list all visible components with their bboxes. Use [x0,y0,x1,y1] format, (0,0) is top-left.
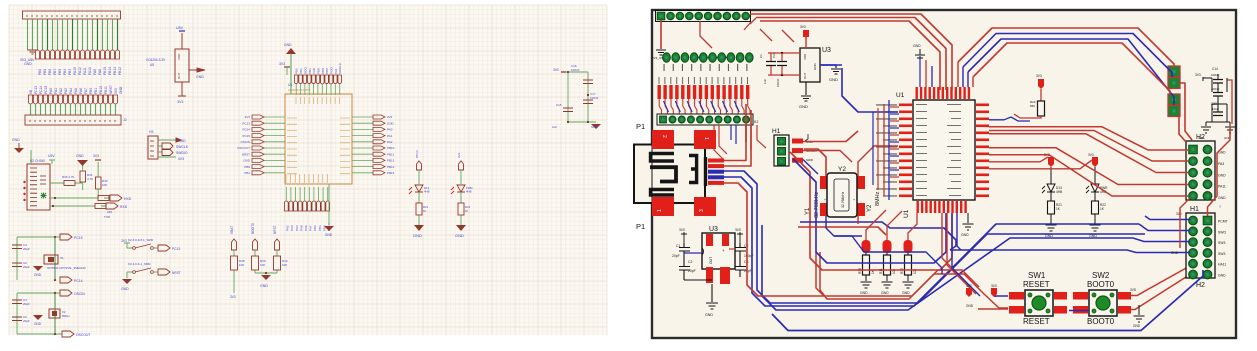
capacitor C4 [12,243,30,251]
PCB board outline [652,10,1236,338]
svg-text:GND: GND [121,287,129,291]
terminal OSCOUT [62,331,91,337]
wire blue cross at resistors [834,236,942,274]
capacitor C6 [12,315,30,323]
svg-text:PC13: PC13 [415,150,419,158]
resistor R34 [50,204,112,215]
capacitor C2 left at U3 bottom [679,260,712,280]
svg-text:TXD: TXD [104,215,111,219]
svg-text:SWDIO: SWDIO [176,151,188,155]
svg-text:PA11: PA11 [83,67,87,75]
wire blue trapezoid to via V2 [963,34,1172,78]
wire U1 bottom fan [866,210,980,296]
svg-text:220: 220 [107,210,112,214]
net labels MCU left [237,115,251,175]
capacitor C3 [12,298,30,306]
svg-text:GND: GND [284,43,292,47]
terminal RXD [104,203,128,219]
svg-text:PB8: PB8 [38,69,42,75]
svg-text:PC14: PC14 [74,279,83,283]
crystal X1 [44,255,86,270]
MCU U4 APM32F103 [285,83,352,184]
svg-text:GND: GND [119,86,123,94]
MCU U4 top pins [294,75,342,95]
svg-text:PA2: PA2 [286,225,290,231]
svg-text:100nF: 100nF [571,68,580,72]
connector J1 pin pads [35,50,120,59]
net labels MCU right [387,115,395,175]
wire blue bus to H1 right [950,216,1190,253]
wire K2 header to top bus [700,21,794,48]
svg-text:PB13: PB13 [387,159,395,163]
connector K2 header [657,114,758,125]
svg-text:H1: H1 [1190,206,1199,213]
svg-text:PA0: PA0 [387,128,393,132]
capacitor C2 right at U3 bottom [729,243,754,262]
svg-text:PB14: PB14 [387,165,395,169]
svg-text:3V3: 3V3 [93,154,99,158]
svg-text:PB10: PB10 [99,86,103,94]
svg-text:GND: GND [961,233,969,237]
via V1 [1168,66,1180,77]
svg-text:PA7: PA7 [309,225,313,231]
svg-text:C15: C15 [556,103,562,107]
svg-text:100nF: 100nF [776,78,780,87]
svg-text:PB11: PB11 [387,152,394,156]
switch SW1 RESET [1009,271,1067,326]
regulator U3 top [799,25,831,109]
svg-text:GND: GND [34,273,42,277]
resistor R30 [93,154,108,198]
svg-text:PA2: PA2 [387,140,393,144]
svg-text:1K: 1K [423,209,427,213]
resistor R11 footprint [879,240,896,295]
svg-text:K3-3.0-6-1_SMD: K3-3.0-6-1_SMD [128,262,151,266]
SMD pad row K2 [658,77,750,99]
svg-text:BOOT0: BOOT0 [1087,317,1115,326]
wire J2 pin nets [31,104,116,115]
svg-text:R36 4.7K: R36 4.7K [62,175,75,179]
svg-text:HA11: HA11 [1218,263,1226,267]
wire blue from U3 to U1 [820,65,898,112]
svg-text:PA6: PA6 [304,225,308,231]
svg-text:PB1: PB1 [244,171,250,175]
svg-text:3V3: 3V3 [121,239,127,243]
svg-text:1K: 1K [465,209,469,213]
svg-text:4.7K: 4.7K [87,177,93,181]
wire red to LED chains [989,157,1092,169]
svg-text:1uF: 1uF [552,125,557,129]
wire J1 pin nets [28,19,118,50]
svg-text:PB0: PB0 [295,68,299,74]
svg-text:GND: GND [591,125,599,129]
IC U1 footprint [896,92,975,218]
svg-text:PC13: PC13 [172,247,180,251]
svg-text:NRST: NRST [273,225,277,234]
resistor R33 [50,196,110,201]
connector J2 header box [25,115,127,125]
svg-text:PB2: PB2 [325,68,329,74]
svg-text:VDD: VDD [803,53,807,60]
svg-text:PA4: PA4 [69,88,73,94]
wire OSCIN net [17,292,62,335]
crystal Y1 footprint [820,166,865,217]
ground at U5 [189,68,205,79]
svg-text:SWO: SWO [1218,230,1226,234]
svg-text:SW3: SW3 [1218,241,1225,245]
svg-text:OUT: OUT [709,257,713,264]
svg-text:GND: GND [24,62,32,66]
svg-text:PB3: PB3 [68,69,72,75]
wire red under crystal [798,227,886,235]
svg-text:BOOT0: BOOT0 [1087,280,1115,289]
svg-text:C22: C22 [772,52,776,58]
svg-text:R32: R32 [900,268,904,274]
svg-text:NRST: NRST [109,85,113,94]
wire red inner to via V3 [973,43,1170,94]
node 3V3 at SW1 [995,296,1008,297]
capacitor network C16 C17 C15 [552,64,599,129]
resistor chain BOOT0 [251,223,266,273]
svg-text:RESET: RESET [1023,317,1050,326]
svg-text:PCMT: PCMT [1218,220,1228,224]
wire fanout K2 to header [659,99,750,114]
terminal HXD [110,195,132,201]
svg-text:PB10: PB10 [387,146,395,150]
pads P1 signal pins [708,159,724,185]
svg-text:GND: GND [12,138,20,142]
wire red left of U1 [873,100,899,200]
svg-text:H2: H2 [1196,282,1205,289]
svg-text:GND: GND [413,233,422,238]
svg-text:H3: H3 [149,130,153,134]
ground at SW2 right [1133,305,1145,328]
MCU U4 bottom pins [284,187,330,211]
svg-text:100nF: 100nF [590,96,599,100]
svg-text:PB9: PB9 [43,69,47,75]
svg-text:GND: GND [913,44,921,48]
svg-text:PB15: PB15 [387,171,395,175]
wire red loop around crystal [790,152,952,270]
wire blue from U1 right [989,117,1011,120]
svg-text:X1: X1 [60,256,64,260]
wire red bathtub pair [816,252,1008,308]
ground above MCU U4 [284,43,296,94]
svg-text:P1: P1 [636,122,645,131]
svg-text:U5: U5 [150,63,154,67]
pad P1 pin4 [694,197,716,216]
svg-text:3V3: 3V3 [114,88,118,94]
svg-text:PC14: PC14 [39,86,43,94]
svg-text:20pF: 20pF [23,265,30,269]
svg-text:OUT: OUT [177,73,181,80]
svg-text:+: + [722,248,725,253]
connector J2 pads second row [663,53,753,62]
MCU U4 left pins [252,115,285,175]
svg-text:RXD: RXD [120,205,128,209]
resistor R38 footprint [858,240,875,295]
svg-text:PA4: PA4 [295,225,299,231]
net labels MCU bottom [286,223,331,231]
svg-text:PB7: PB7 [53,69,57,75]
svg-text:32768HZ-CRYSTAL_3MEGND: 32768HZ-CRYSTAL_3MEGND [47,266,86,270]
svg-text:PA6: PA6 [79,88,83,94]
svg-text:3V3: 3V3 [230,295,236,299]
svg-text:OUT: OUT [803,73,807,80]
svg-text:1: 1 [657,209,663,212]
capacitor C1 at U3 top [759,52,800,84]
wire red vertical K2 to usb [746,125,751,150]
svg-text:K2-3.0-6-5.1_SMD: K2-3.0-6-5.1_SMD [128,238,154,242]
wire H1 to crystal area [803,131,858,174]
regulator U5 XC6204 [146,26,189,104]
svg-text:10K: 10K [239,263,244,267]
svg-text:VDD: VDD [177,53,181,60]
connector J1 pads top row [656,11,751,22]
svg-text:20pF: 20pF [688,269,696,273]
silkscreen labels H1 [1176,212,1228,278]
pads U1 left [899,104,912,198]
svg-text:BOOT0: BOOT0 [251,223,255,234]
LED PWR chain pcb [1086,153,1108,238]
svg-text:PA12: PA12 [78,67,82,75]
connector P1 USB body [634,122,706,231]
svg-text:PB13: PB13 [113,67,117,75]
ground at U1 bottom right [961,213,974,237]
pad P1 pin3 [652,197,674,216]
regulator U3 bottom footprint [702,226,735,284]
silkscreen labels J2 row [664,64,748,71]
silkscreen label Y1 [805,191,820,218]
capacitor C14 C20 block [1195,67,1235,140]
ground at X2 [33,315,43,326]
svg-text:?: ? [1219,205,1221,209]
svg-text:U1: U1 [903,209,910,218]
ground at U1 top [913,44,925,87]
LED PWR chain [451,152,473,238]
connector J1 header box [23,11,121,19]
svg-text:PC15: PC15 [242,134,250,138]
svg-text:20pF: 20pF [744,269,752,273]
svg-text:PB11: PB11 [104,86,108,94]
svg-text:2: 2 [661,135,667,138]
svg-text:PB0: PB0 [313,225,317,231]
LED D13 chain [409,150,430,238]
svg-text:3V3: 3V3 [1088,153,1094,157]
terminal PC15 [60,234,83,240]
wire SW1 to SW2 link [1069,310,1089,312]
node 3V3 above MCU U4 [279,62,290,75]
svg-text:PA0: PA0 [49,88,53,94]
svg-text:PB14: PB14 [108,67,112,75]
svg-text:3V3: 3V3 [1036,74,1042,78]
svg-text:GND: GND [196,75,204,79]
svg-text:PA7: PA7 [84,88,88,94]
svg-text:3MY: 3MY [1198,136,1204,140]
svg-text:GND: GND [902,291,910,295]
svg-text:PB5: PB5 [58,69,62,75]
svg-text:10K: 10K [260,263,265,267]
pad P1 pin2 [652,130,674,149]
svg-text:PC15: PC15 [74,236,83,240]
pads U1 right [976,104,989,198]
svg-text:SWD: SWD [806,158,814,162]
node 3V3 pads below U1 [966,284,997,297]
LED D13 chain pcb [1042,153,1062,238]
svg-text:PA3: PA3 [64,88,68,94]
svg-text:PB9: PB9 [244,165,250,169]
svg-text:3VD: 3VD [1130,288,1137,292]
svg-text:PA8: PA8 [98,69,102,75]
svg-text:J2: J2 [123,118,127,122]
svg-text:20pF: 20pF [23,247,30,251]
svg-text:P1: P1 [636,222,645,231]
switch SW2 BOOT0 [1073,271,1131,326]
svg-text:R38: R38 [858,268,862,274]
svg-text:GND: GND [799,104,808,109]
via V2 [1168,78,1180,89]
wire GND stub from J1 pad1 [652,20,666,60]
svg-text:+: + [824,198,826,202]
svg-text:SW2: SW2 [1092,271,1110,280]
capacitor C3 at U3 bottom [735,260,752,277]
svg-text:GND: GND [813,63,817,71]
resistor R29 [1011,74,1045,121]
svg-text:C1: C1 [759,54,763,58]
switch K3 [127,262,181,278]
svg-text:3V3: 3V3 [800,25,806,29]
svg-text:PB0: PB0 [89,88,93,94]
svg-text:3V3: 3V3 [245,115,251,119]
svg-text:SW3: SW3 [1218,252,1225,256]
net labels J1 [38,67,122,75]
svg-text:OSCOUT: OSCOUT [76,333,91,337]
wire trapezoid stubs to U1 [926,60,973,87]
wire red fan to H2 [989,127,1188,196]
svg-text:1: 1 [703,137,709,140]
svg-text:SWCLK: SWCLK [176,145,189,149]
svg-text:3: 3 [699,209,705,212]
svg-text:560: 560 [1030,104,1035,108]
svg-text:PB6: PB6 [48,69,52,75]
svg-text:OSCIN: OSCIN [240,140,250,144]
net labels J2 [29,85,123,94]
ground at R31 [76,154,88,166]
svg-text:3V3: 3V3 [279,62,285,66]
svg-text:PA3: PA3 [1218,162,1224,166]
svg-text:10K: 10K [282,263,287,267]
svg-text:PA1: PA1 [54,88,58,94]
svg-text:PC13: PC13 [242,121,250,125]
svg-text:PB15: PB15 [103,67,107,75]
svg-text:U1: U1 [896,92,905,99]
svg-text:PA3: PA3 [290,225,294,231]
svg-text:10K: 10K [102,183,107,187]
connector H3 [148,130,189,161]
via V4 [1168,106,1180,117]
wire via V4 to right edge [1179,116,1186,142]
svg-text:GND: GND [260,284,268,288]
ground at pullup chains [255,272,277,288]
svg-text:4HB: 4HB [1056,190,1062,194]
wire K2 to USB region [714,125,766,160]
ground at U3 bottom [705,284,718,317]
svg-text:3V3: 3V3 [966,284,972,288]
svg-text:H1: H1 [772,128,781,135]
capacitor C2 [12,261,30,269]
svg-text:Y2: Y2 [867,204,873,212]
terminal OSCIN [60,290,85,296]
IC U2 USB interface [23,159,50,210]
svg-text:4HB: 4HB [424,190,430,194]
wire blue loop around crystal [793,159,946,263]
pad P1 pin1 [694,130,716,149]
svg-text:GND: GND [455,233,464,238]
svg-text:20pF: 20pF [672,254,680,258]
svg-text:3V3: 3V3 [457,152,461,158]
svg-text:PA9: PA9 [93,69,97,75]
wire red right bottom loop [1171,198,1190,255]
wire via V2 to right edge [1180,83,1192,140]
svg-text:K2: K2 [754,120,758,124]
svg-text:SW1: SW1 [1028,271,1046,280]
pads U1 top [916,87,971,99]
wire red into H1 PCMT [1208,126,1231,216]
wire crystal pads up [804,146,898,236]
svg-text:PA5: PA5 [74,88,78,94]
svg-text:RESET: RESET [1023,280,1050,289]
svg-text:GND: GND [1133,324,1141,328]
svg-text:PA5: PA5 [299,225,303,231]
ground at C16 [591,124,601,129]
wire blue bottom long [772,270,1203,331]
svg-text:C14: C14 [1212,67,1218,71]
svg-text:3V3: 3V3 [387,115,393,119]
wire red trapezoid to via V1 [958,28,1174,66]
svg-text:PC14: PC14 [242,128,250,132]
resistor R31 [80,160,93,190]
svg-text:GND: GND [1171,251,1179,255]
svg-text:PB12: PB12 [118,67,122,75]
svg-text:8MHz: 8MHz [875,191,881,206]
svg-text:3V3: 3V3 [178,157,184,161]
wire usb blue bundle [724,171,1145,310]
wire blue inner to via V4 [968,39,1174,105]
ground 3V3_U5V at J1 [20,50,38,66]
svg-text:PB4: PB4 [63,69,67,75]
svg-text:3V3: 3V3 [177,100,183,104]
resistor chain NRST [273,225,288,273]
LED green indicator [41,193,47,199]
terminal PC14 [60,277,83,283]
resistor chain VBAT [230,226,245,299]
svg-text:GND: GND [1218,173,1226,177]
svg-text:+: + [853,198,855,202]
svg-text:Y2: Y2 [838,166,846,173]
svg-text:C2: C2 [688,260,692,264]
svg-text:20pF: 20pF [23,319,30,323]
svg-text:PA1: PA1 [387,134,393,138]
node U5V at U2 [48,154,55,164]
wire usb red bundle [724,104,824,296]
wire red top bus 2 [756,18,946,91]
svg-text:20pF: 20pF [23,302,30,306]
svg-text:PA10: PA10 [88,67,92,75]
svg-text:PC15: PC15 [44,86,48,94]
switch K2 [121,238,180,251]
via V3 [1168,94,1180,105]
svg-text:GND: GND [829,77,838,82]
